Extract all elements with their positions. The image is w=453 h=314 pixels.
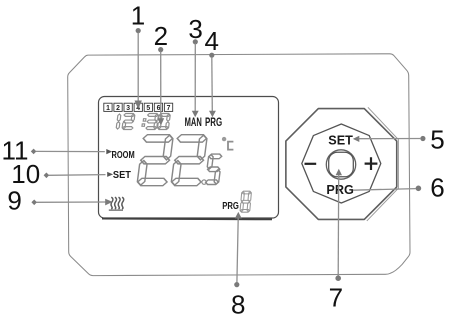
svg-text:5: 5 bbox=[430, 125, 444, 155]
svg-text:2: 2 bbox=[116, 105, 120, 112]
rotary dial outer octagon bezel bbox=[286, 109, 397, 220]
LCD temperature display 22.5 bbox=[137, 135, 222, 186]
callout 7 arrowhead bbox=[336, 169, 342, 176]
svg-text:4: 4 bbox=[204, 26, 218, 56]
callout 10 label bbox=[11, 159, 40, 189]
svg-text:MAN: MAN bbox=[185, 115, 202, 129]
svg-text:SET: SET bbox=[113, 170, 131, 181]
LCD label PRG (top) bbox=[205, 115, 222, 129]
callout 4 label bbox=[204, 26, 218, 56]
callout 3 label bbox=[188, 14, 202, 44]
callout 8 dot bbox=[234, 282, 239, 287]
dial bezel sketch double-line (right side) bbox=[367, 107, 399, 221]
LCD indicator triangle for ROOM bbox=[106, 149, 112, 154]
svg-text:6: 6 bbox=[430, 172, 444, 202]
callout 8 arrowhead bbox=[235, 212, 242, 219]
callout 6 label bbox=[430, 172, 444, 202]
callout 7 dot bbox=[335, 275, 341, 281]
dial label PRG bbox=[326, 183, 354, 197]
dial plus symbol bbox=[365, 157, 378, 170]
callout 4 arrowhead bbox=[209, 111, 216, 117]
callout 9 leader line bbox=[37, 201, 106, 203]
LCD heating-on icon bbox=[109, 197, 124, 211]
callout 11 leader line bbox=[36, 150, 105, 152]
callout 10 dot bbox=[44, 173, 50, 179]
callout 3 dot bbox=[193, 39, 198, 44]
LCD weekday indicator boxes 1-7 bbox=[104, 103, 173, 112]
callout 5 leader line bbox=[359, 138, 421, 140]
callout 5 label bbox=[430, 125, 444, 155]
LCD degree-Celsius symbol bbox=[222, 137, 233, 150]
callout 1 arrowhead bbox=[135, 101, 142, 110]
svg-text:7: 7 bbox=[167, 105, 171, 112]
LCD label MAN bbox=[185, 115, 202, 129]
callout 3 leader line bbox=[194, 44, 196, 112]
callout 2 arrowhead bbox=[158, 118, 165, 125]
LCD label SET bbox=[113, 170, 131, 181]
svg-text:PRG: PRG bbox=[326, 183, 354, 197]
svg-text:1: 1 bbox=[131, 1, 145, 31]
dial center button outer circle bbox=[326, 150, 355, 179]
callout 2 label bbox=[154, 21, 168, 51]
svg-text:1: 1 bbox=[106, 105, 110, 112]
callout 6 dot bbox=[416, 186, 422, 192]
svg-text:9: 9 bbox=[7, 185, 21, 215]
svg-text:7: 7 bbox=[329, 283, 343, 313]
callout 8 label bbox=[231, 290, 245, 314]
svg-text:5: 5 bbox=[146, 105, 150, 112]
callout 9 label bbox=[7, 185, 21, 215]
callout 8 leader line bbox=[237, 218, 238, 282]
svg-text:6: 6 bbox=[157, 105, 161, 112]
callout 11 dot bbox=[31, 149, 37, 155]
callout 6 leader line bbox=[353, 189, 416, 191]
LCD clock display 12:30 bbox=[116, 114, 170, 130]
callout 7 label bbox=[329, 283, 343, 313]
callout 4 dot bbox=[209, 53, 214, 58]
callout 7 leader line bbox=[337, 175, 340, 276]
callout 2 leader line bbox=[160, 52, 162, 120]
dial minus symbol bbox=[305, 163, 317, 165]
callout 1 dot bbox=[136, 28, 141, 33]
svg-text:2: 2 bbox=[154, 21, 168, 51]
dial label SET bbox=[328, 133, 353, 147]
dial inner octagon button ring bbox=[302, 124, 381, 203]
svg-text:11: 11 bbox=[2, 135, 29, 165]
callout 1 label bbox=[131, 1, 145, 31]
callout 5 arrowhead bbox=[353, 136, 360, 142]
svg-text:PRG: PRG bbox=[205, 115, 222, 129]
LCD program number digit 8 bbox=[240, 191, 252, 212]
callout 9 dot bbox=[31, 200, 37, 206]
callout 1 leader line bbox=[137, 33, 139, 102]
LCD indicator triangle for SET bbox=[107, 172, 113, 177]
svg-text:PRG: PRG bbox=[222, 200, 239, 212]
callout 3 arrowhead bbox=[192, 111, 199, 117]
callout 11 label bbox=[2, 135, 29, 165]
callout 9 arrowhead bbox=[105, 199, 112, 206]
callout 4 leader line bbox=[211, 57, 214, 112]
LCD label ROOM bbox=[112, 150, 135, 161]
callout 2 dot bbox=[158, 47, 163, 52]
callout 10 leader line bbox=[49, 174, 106, 177]
LCD panel outline bbox=[99, 97, 279, 220]
LCD label PRG (bottom) bbox=[222, 200, 239, 212]
svg-text:3: 3 bbox=[126, 105, 130, 112]
callout 5 dot bbox=[420, 136, 425, 141]
svg-text:ROOM: ROOM bbox=[112, 150, 135, 161]
thermostat body outline bbox=[68, 54, 410, 276]
dial center button inner rounded square bbox=[329, 152, 354, 177]
svg-text:8: 8 bbox=[231, 290, 245, 314]
svg-text:SET: SET bbox=[328, 133, 353, 147]
